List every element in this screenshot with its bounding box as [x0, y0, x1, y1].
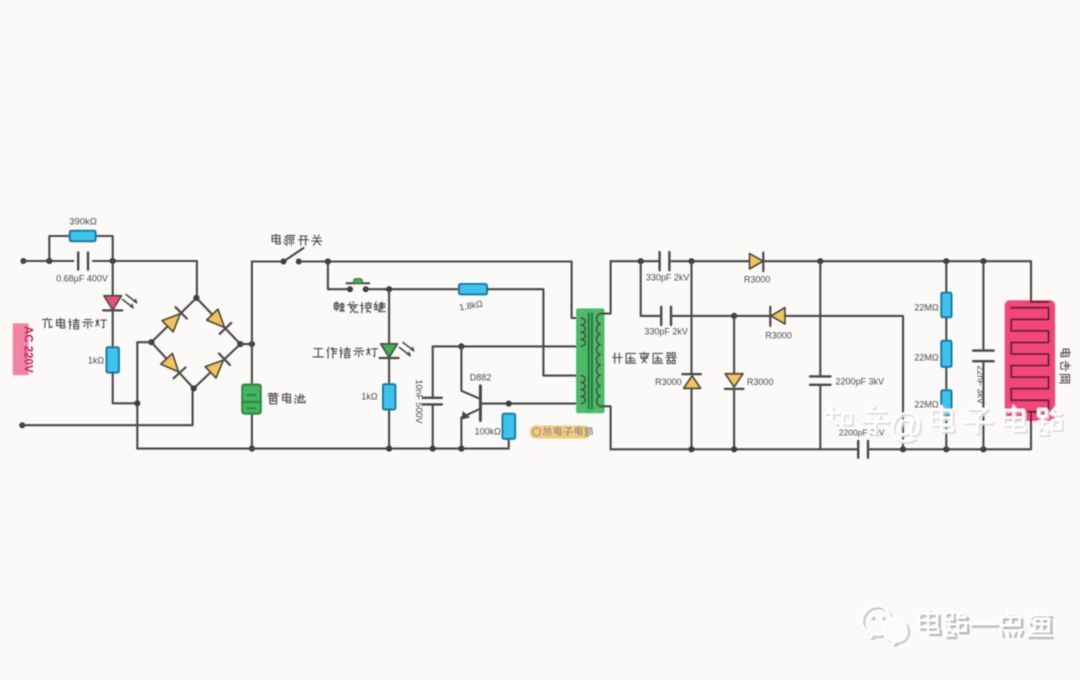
label 充电指示灯: [43, 318, 52, 327]
wire trigger branch down: [328, 262, 350, 289]
LED light arrows: [123, 295, 137, 308]
capacitor 0.68µF 400V: [77, 252, 79, 269]
node cap2 branch junction: [638, 258, 644, 264]
svg-text:330pF 2kV: 330pF 2kV: [644, 326, 688, 336]
node LED branch joins: [134, 400, 140, 406]
wire secondary top out: [600, 261, 610, 313]
resistor 1kΩ (work LED): [383, 384, 395, 409]
watermark 总电子电路: [530, 426, 590, 439]
node RC left junction: [46, 258, 52, 264]
wire 1.8kΩ to transformer primary2 top: [487, 289, 581, 375]
wire base to transformer feedback: [482, 403, 581, 405]
node battery column junction: [249, 341, 255, 347]
resistor 390kΩ: [70, 231, 96, 241]
wire AC neutral to bridge bottom: [22, 390, 192, 425]
transformer primary winding lower: [581, 376, 585, 404]
label 触发按键: [334, 302, 344, 311]
node bottom second-row return: [900, 446, 906, 452]
svg-text:390kΩ: 390kΩ: [69, 217, 97, 228]
resistor 100kΩ: [503, 414, 516, 439]
wire bridge left to bottom rail: [137, 342, 151, 448]
node AC input terminal N: [19, 422, 25, 428]
svg-text:330pF 2kV: 330pF 2kV: [646, 272, 690, 282]
switch 电源开关: [252, 260, 284, 262]
node RC right junction: [110, 258, 116, 264]
label 工作指示灯: [313, 349, 323, 357]
wire 22MΩ chain: [945, 261, 947, 449]
svg-text:22MΩ: 22MΩ: [914, 302, 939, 312]
wire to work LED: [388, 289, 390, 344]
diode bridge D1 upper-left: [162, 314, 180, 332]
LED work indicator (green): [381, 344, 398, 358]
svg-text:1kΩ: 1kΩ: [88, 355, 105, 365]
wire battery column: [251, 262, 253, 449]
wire secondary bottom out: [600, 406, 610, 449]
node bridge left: [148, 339, 154, 345]
svg-text:R3000: R3000: [655, 377, 682, 387]
diode R3000 (shunt, up): [682, 373, 701, 375]
resistor 22MΩ 3: [941, 390, 951, 416]
node bridge bottom: [191, 385, 197, 391]
wire button to 1.8kΩ: [366, 288, 459, 290]
capacitor 22nF 3kV: [973, 349, 993, 351]
wire bridge right to battery column: [240, 343, 252, 345]
pushbutton 触发按键: [347, 282, 370, 284]
svg-text:0.68µF 400V: 0.68µF 400V: [56, 274, 108, 284]
transformer secondary winding: [597, 314, 601, 407]
svg-text:D882: D882: [470, 372, 492, 382]
label 电击网: [1060, 349, 1071, 383]
capacitor 2200pF 3kV: [810, 375, 830, 377]
wire 22nF column: [982, 261, 984, 449]
diode bridge D3 lower-left: [161, 354, 179, 372]
node 22nF top junction: [980, 258, 986, 264]
node battery bottom junction: [249, 446, 255, 452]
node base junction (100kΩ top): [506, 401, 512, 407]
capacitor 330pF 2kV (top): [658, 252, 660, 270]
svg-text:R3000: R3000: [747, 377, 774, 387]
resistor 22MΩ 1: [941, 293, 951, 318]
resistor 1.8kΩ: [459, 284, 487, 294]
LED light arrows: [400, 343, 414, 356]
svg-text:2200pF 3kV: 2200pF 3kV: [836, 376, 885, 386]
label 蓄电池: [268, 393, 278, 404]
label AC 220V badge: [13, 323, 29, 375]
svg-text:AC 220V: AC 220V: [22, 326, 34, 373]
wire to charging LED: [112, 261, 114, 296]
node bottom diode1: [688, 446, 694, 452]
capacitor 330pF 2kV (second): [660, 307, 662, 325]
node work LED junction: [386, 286, 392, 292]
electric net 电击网: [1005, 300, 1055, 421]
wire bottom rail (battery circuit): [137, 439, 508, 449]
node bottom 22nF: [980, 446, 986, 452]
node work LED bottom: [386, 446, 392, 452]
diode bridge D2 upper-right: [207, 309, 225, 327]
wire HV bottom rail: [611, 421, 1031, 449]
node 22MΩ top junction: [943, 258, 949, 264]
watermark 知乎 @电子电路: [827, 408, 1062, 447]
diode R3000 (series top): [750, 254, 763, 269]
capacitor output 2200pF 3kV: [857, 441, 859, 458]
resistor 22MΩ 2: [941, 341, 951, 367]
transformer 升压变压器: [576, 308, 604, 413]
wire collector rail to transformer: [433, 345, 581, 347]
capacitor 10nF 500V: [424, 397, 442, 399]
wire diode column 1: [690, 261, 692, 449]
transformer primary winding upper: [581, 318, 585, 346]
wire LED to 1kΩ2: [388, 358, 390, 384]
wire top rail to mesh: [763, 261, 1031, 300]
diode R3000 (shunt, down): [725, 374, 743, 387]
node diode column 1 junction: [688, 258, 694, 264]
watermark logo 电路一点通: [864, 608, 1053, 647]
svg-text:@: @: [889, 407, 924, 445]
node second row junction: [731, 313, 737, 319]
LED charging indicator (red): [104, 296, 121, 310]
svg-text:10nF 500V: 10nF 500V: [414, 379, 424, 423]
wire resistor loop: [49, 236, 112, 261]
node bottom 22MΩ: [943, 446, 949, 452]
node 2200pF junction: [817, 258, 823, 264]
node bridge top: [193, 295, 199, 301]
wire 10nF branch: [432, 346, 434, 448]
node trigger branch junction: [325, 258, 331, 264]
svg-text:1kΩ: 1kΩ: [361, 392, 378, 402]
transistor Q1 D882: [461, 346, 480, 398]
node bottom diode2: [731, 446, 737, 452]
wire HV top rail: [611, 260, 750, 262]
diode bridge D4 lower-right: [205, 360, 223, 378]
svg-text:22MΩ: 22MΩ: [914, 352, 939, 362]
node 10nF bottom: [430, 446, 436, 452]
node collector junction: [458, 343, 464, 349]
wire 2200pF column: [819, 261, 821, 449]
svg-text:100kΩ: 100kΩ: [475, 426, 502, 436]
wire 1kΩ to bottom jog: [113, 373, 138, 404]
label 电源开关: [272, 234, 280, 244]
resistor 1kΩ (charging): [107, 347, 119, 372]
svg-text:R3000: R3000: [744, 274, 771, 284]
wire 1kΩ2 to bottom rail: [388, 410, 390, 449]
wire switch to transformer primary top: [299, 262, 581, 319]
wire LED to 1kΩ: [112, 310, 114, 347]
bridge rectifier wires: [151, 298, 240, 389]
wire second row to down-drop: [785, 316, 903, 449]
wire second row from top rail: [641, 261, 771, 316]
diode R3000 (series second, left-pointing): [769, 307, 771, 326]
wire diode column 2: [733, 316, 735, 449]
battery 蓄电池: [242, 385, 260, 414]
svg-text:R3000: R3000: [765, 331, 792, 341]
wire AC line to RC network: [23, 260, 73, 262]
node AC input terminal L: [20, 258, 26, 264]
node emitter bottom: [458, 446, 464, 452]
svg-text:22nF 3kV: 22nF 3kV: [975, 365, 985, 404]
node bridge right: [237, 341, 243, 347]
wire RC right segment to bridge top: [93, 261, 197, 297]
label 升压变压器: [613, 353, 623, 363]
